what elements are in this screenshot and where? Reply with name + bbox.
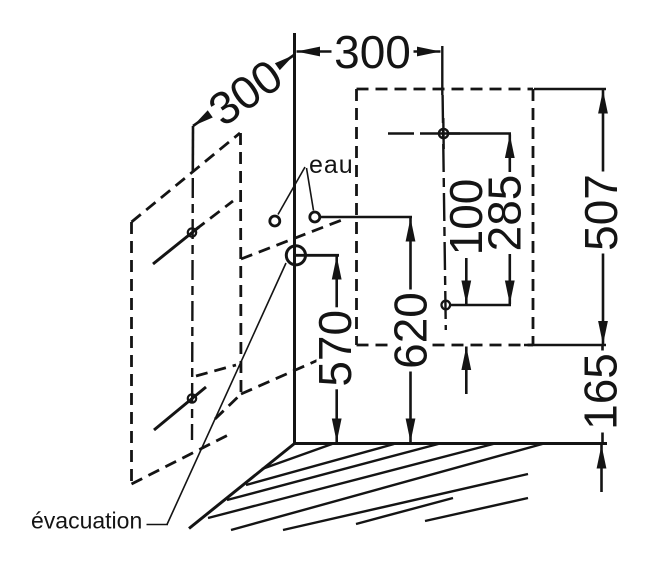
dimension line 100 upper <box>465 256 468 304</box>
wire floor line right <box>293 442 607 445</box>
label 300 horizontal <box>332 26 414 78</box>
wire floor hatch 5 <box>231 444 544 531</box>
dimension line 300 horizontal <box>297 50 441 53</box>
dimension line 620 <box>409 218 412 442</box>
dimension line 100 lower <box>465 347 468 395</box>
svg-text:285: 285 <box>479 175 531 252</box>
wire ext evacuation to 570 <box>296 254 339 257</box>
wire floor edge left <box>189 444 295 529</box>
wire crosshair horizontal bar <box>428 132 460 134</box>
wire left plate centerline solid top <box>192 126 195 172</box>
label 570 <box>309 307 361 389</box>
node eau right circle <box>310 212 320 222</box>
wire right plate top edge (dashed) <box>357 88 534 91</box>
node eau left circle <box>270 216 280 226</box>
svg-text:570: 570 <box>309 310 361 387</box>
arrow 570 bottom <box>332 419 342 443</box>
wire ext eau to 620 <box>321 216 412 219</box>
label 300 diagonal <box>197 47 294 137</box>
arrow 285 bottom <box>505 281 515 305</box>
arrow 100 up <box>461 347 471 371</box>
wire eau leader right <box>307 168 314 211</box>
label 507 <box>575 172 627 254</box>
wire left plate top edge (dashed) <box>132 133 241 222</box>
wire floor hatch 8 <box>425 498 528 521</box>
svg-text:507: 507 <box>575 174 627 251</box>
node evacuation circle <box>286 246 305 265</box>
wire vertical centerline right (dash-dot) <box>443 95 446 330</box>
wire left plate bottom diag b (dashed) <box>215 394 241 419</box>
wire ext top right <box>534 88 606 91</box>
wire ext line from 300 arrow down <box>441 46 443 95</box>
arrow 300D lower <box>193 109 215 127</box>
wire diag crossing corner high (dashed) <box>241 218 347 259</box>
wire crosshair horiz dash-dot left <box>388 132 429 134</box>
dimension line 285 <box>508 135 511 305</box>
svg-text:eau: eau <box>309 151 354 179</box>
dimension line 165 below floor <box>600 445 603 492</box>
wire left plate left edge (dashed) <box>130 222 133 484</box>
wire diag crossing corner low (dashed) <box>241 357 325 394</box>
wire floor hatch 4 <box>208 444 495 519</box>
wire left plate diag from upper fixing (dashed) <box>195 201 233 230</box>
arrow 300D upper <box>272 55 294 73</box>
wire evacuation leader diagonal <box>167 263 286 525</box>
dimension line 507 <box>602 90 605 345</box>
label 620 <box>385 290 437 372</box>
wire diag tick through upper fixing <box>153 227 199 264</box>
arrow 300H right <box>417 47 441 57</box>
wire evacuation leader horizontal <box>147 524 169 526</box>
arrow 507 bottom <box>598 321 608 345</box>
arrow 285 top <box>505 135 515 159</box>
label 285 <box>479 172 531 254</box>
wire right plate right edge (dashed) <box>532 89 535 345</box>
node lower connection point <box>442 301 451 310</box>
wire right plate left edge (dashed) <box>355 89 358 345</box>
arrow 100 down <box>461 281 471 305</box>
wire ext bottom right <box>524 344 606 347</box>
svg-text:620: 620 <box>385 292 437 369</box>
arrow 620 bottom <box>406 419 416 443</box>
arrow 300H left <box>297 47 321 57</box>
arrow 620 top <box>406 218 416 242</box>
wire ext from crosshair to 285 dim <box>449 132 511 135</box>
wire floor hatch 7 <box>356 498 453 524</box>
wire left plate right edge (dashed) <box>239 133 242 398</box>
wire ext from lower point to 285 dim <box>451 304 511 307</box>
wire right plate bottom edge (dashed) <box>357 344 534 347</box>
svg-text:300: 300 <box>334 26 411 78</box>
dimension line 165 <box>601 345 604 442</box>
arrow 507 top <box>598 90 608 114</box>
wire floor hatch 3 <box>227 444 440 501</box>
wire left plate bottom diag a (dashed) <box>132 434 231 484</box>
svg-text:évacuation: évacuation <box>31 508 142 534</box>
wire left plate diag near lower fixing (dashed) <box>196 365 236 376</box>
arrow 165 bottom outside <box>597 445 607 469</box>
label 100 <box>440 176 492 258</box>
wire left plate centerline (dash-dot) <box>191 178 194 440</box>
wire floor hatch 6 <box>283 474 528 530</box>
wire eau leader left <box>278 167 305 215</box>
dimension line 570 <box>335 256 338 442</box>
wire diag tick through lower fixing <box>154 387 206 430</box>
node lower fixing point left wall <box>188 394 196 402</box>
svg-text:165: 165 <box>575 353 627 430</box>
wire corner vertical line <box>293 33 296 443</box>
arrow 570 top <box>332 256 342 280</box>
wire floor hatch 1 <box>262 444 332 469</box>
node crosshair fixing point <box>439 129 448 138</box>
node upper fixing point left wall <box>188 228 196 236</box>
wire floor hatch 2 <box>246 444 394 485</box>
label 165 <box>575 351 627 433</box>
wire crosshair vertical bar <box>442 118 445 149</box>
dimension line 300 diagonal <box>193 55 294 126</box>
